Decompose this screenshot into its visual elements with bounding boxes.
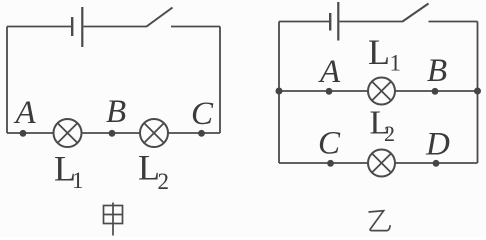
wire: right circuit top, corner to battery [279, 21, 329, 23]
wire: right circuit bottom left segment with node C [279, 162, 368, 164]
svg-text:L: L [368, 32, 390, 72]
wire: right circuit top, battery to switch [340, 21, 404, 23]
lamp L1 (left circuit) [54, 119, 82, 147]
wire: left circuit left vertical [6, 27, 8, 134]
lamp label L2 (left circuit) [138, 148, 169, 195]
wire: left circuit bottom, middle segment with node B [82, 132, 141, 134]
svg-text:1: 1 [390, 51, 402, 76]
svg-text:C: C [318, 126, 341, 162]
wire: left circuit top, switch to right corner [171, 26, 220, 28]
wire: right circuit right vertical [477, 22, 479, 164]
wire: left circuit bottom, right segment with node C [168, 132, 220, 134]
node B junction dot (left circuit) [109, 130, 116, 137]
node A junction dot (right circuit) [326, 88, 333, 95]
svg-text:2: 2 [384, 121, 395, 146]
switch (left circuit) [147, 8, 173, 27]
wire: left circuit bottom, left segment with node A [7, 132, 54, 134]
junction dot right of middle branch (right circuit) [474, 88, 481, 95]
caption 甲 (left circuit, drawn glyph) [104, 203, 123, 236]
svg-text:B: B [427, 53, 447, 89]
node A junction dot (left circuit) [20, 130, 27, 137]
wire: right circuit bottom right segment with node D [396, 162, 478, 164]
wire: right circuit top, switch to right corner [429, 21, 478, 23]
wire: right circuit middle branch right segment with node B [396, 90, 478, 92]
battery cell (left circuit) [72, 7, 82, 47]
wire: left circuit top, battery to switch [84, 26, 148, 28]
svg-text:A: A [14, 95, 37, 131]
wire: left circuit right vertical [219, 27, 221, 134]
node C junction dot (right circuit) [327, 160, 334, 167]
svg-text:2: 2 [158, 169, 170, 194]
wire: right circuit middle branch left segment with node A [279, 90, 368, 92]
svg-text:D: D [425, 127, 450, 163]
node B junction dot (right circuit) [432, 88, 439, 95]
lamp L1 (right circuit) [368, 78, 395, 105]
svg-text:1: 1 [72, 168, 84, 193]
lamp label L1 (right circuit) [368, 32, 401, 76]
lamp label L1 (left circuit) [54, 149, 84, 194]
caption 乙 (right circuit, drawn glyph) [369, 211, 391, 231]
lamp L2 (left circuit) [140, 119, 168, 147]
svg-text:C: C [191, 96, 214, 132]
wire: right circuit left vertical [278, 22, 280, 164]
junction dot left of middle branch (right circuit) [276, 88, 283, 95]
switch (right circuit) [403, 4, 429, 22]
battery cell (right circuit) [330, 2, 338, 41]
node C junction dot (left circuit) [198, 130, 205, 137]
svg-text:A: A [318, 54, 341, 90]
svg-text:B: B [106, 94, 126, 130]
node D junction dot (right circuit) [433, 160, 440, 167]
lamp L2 (right circuit) [368, 150, 395, 177]
lamp label L2 (right circuit) [370, 105, 396, 147]
wire: left circuit top, battery to left corner [7, 26, 71, 28]
